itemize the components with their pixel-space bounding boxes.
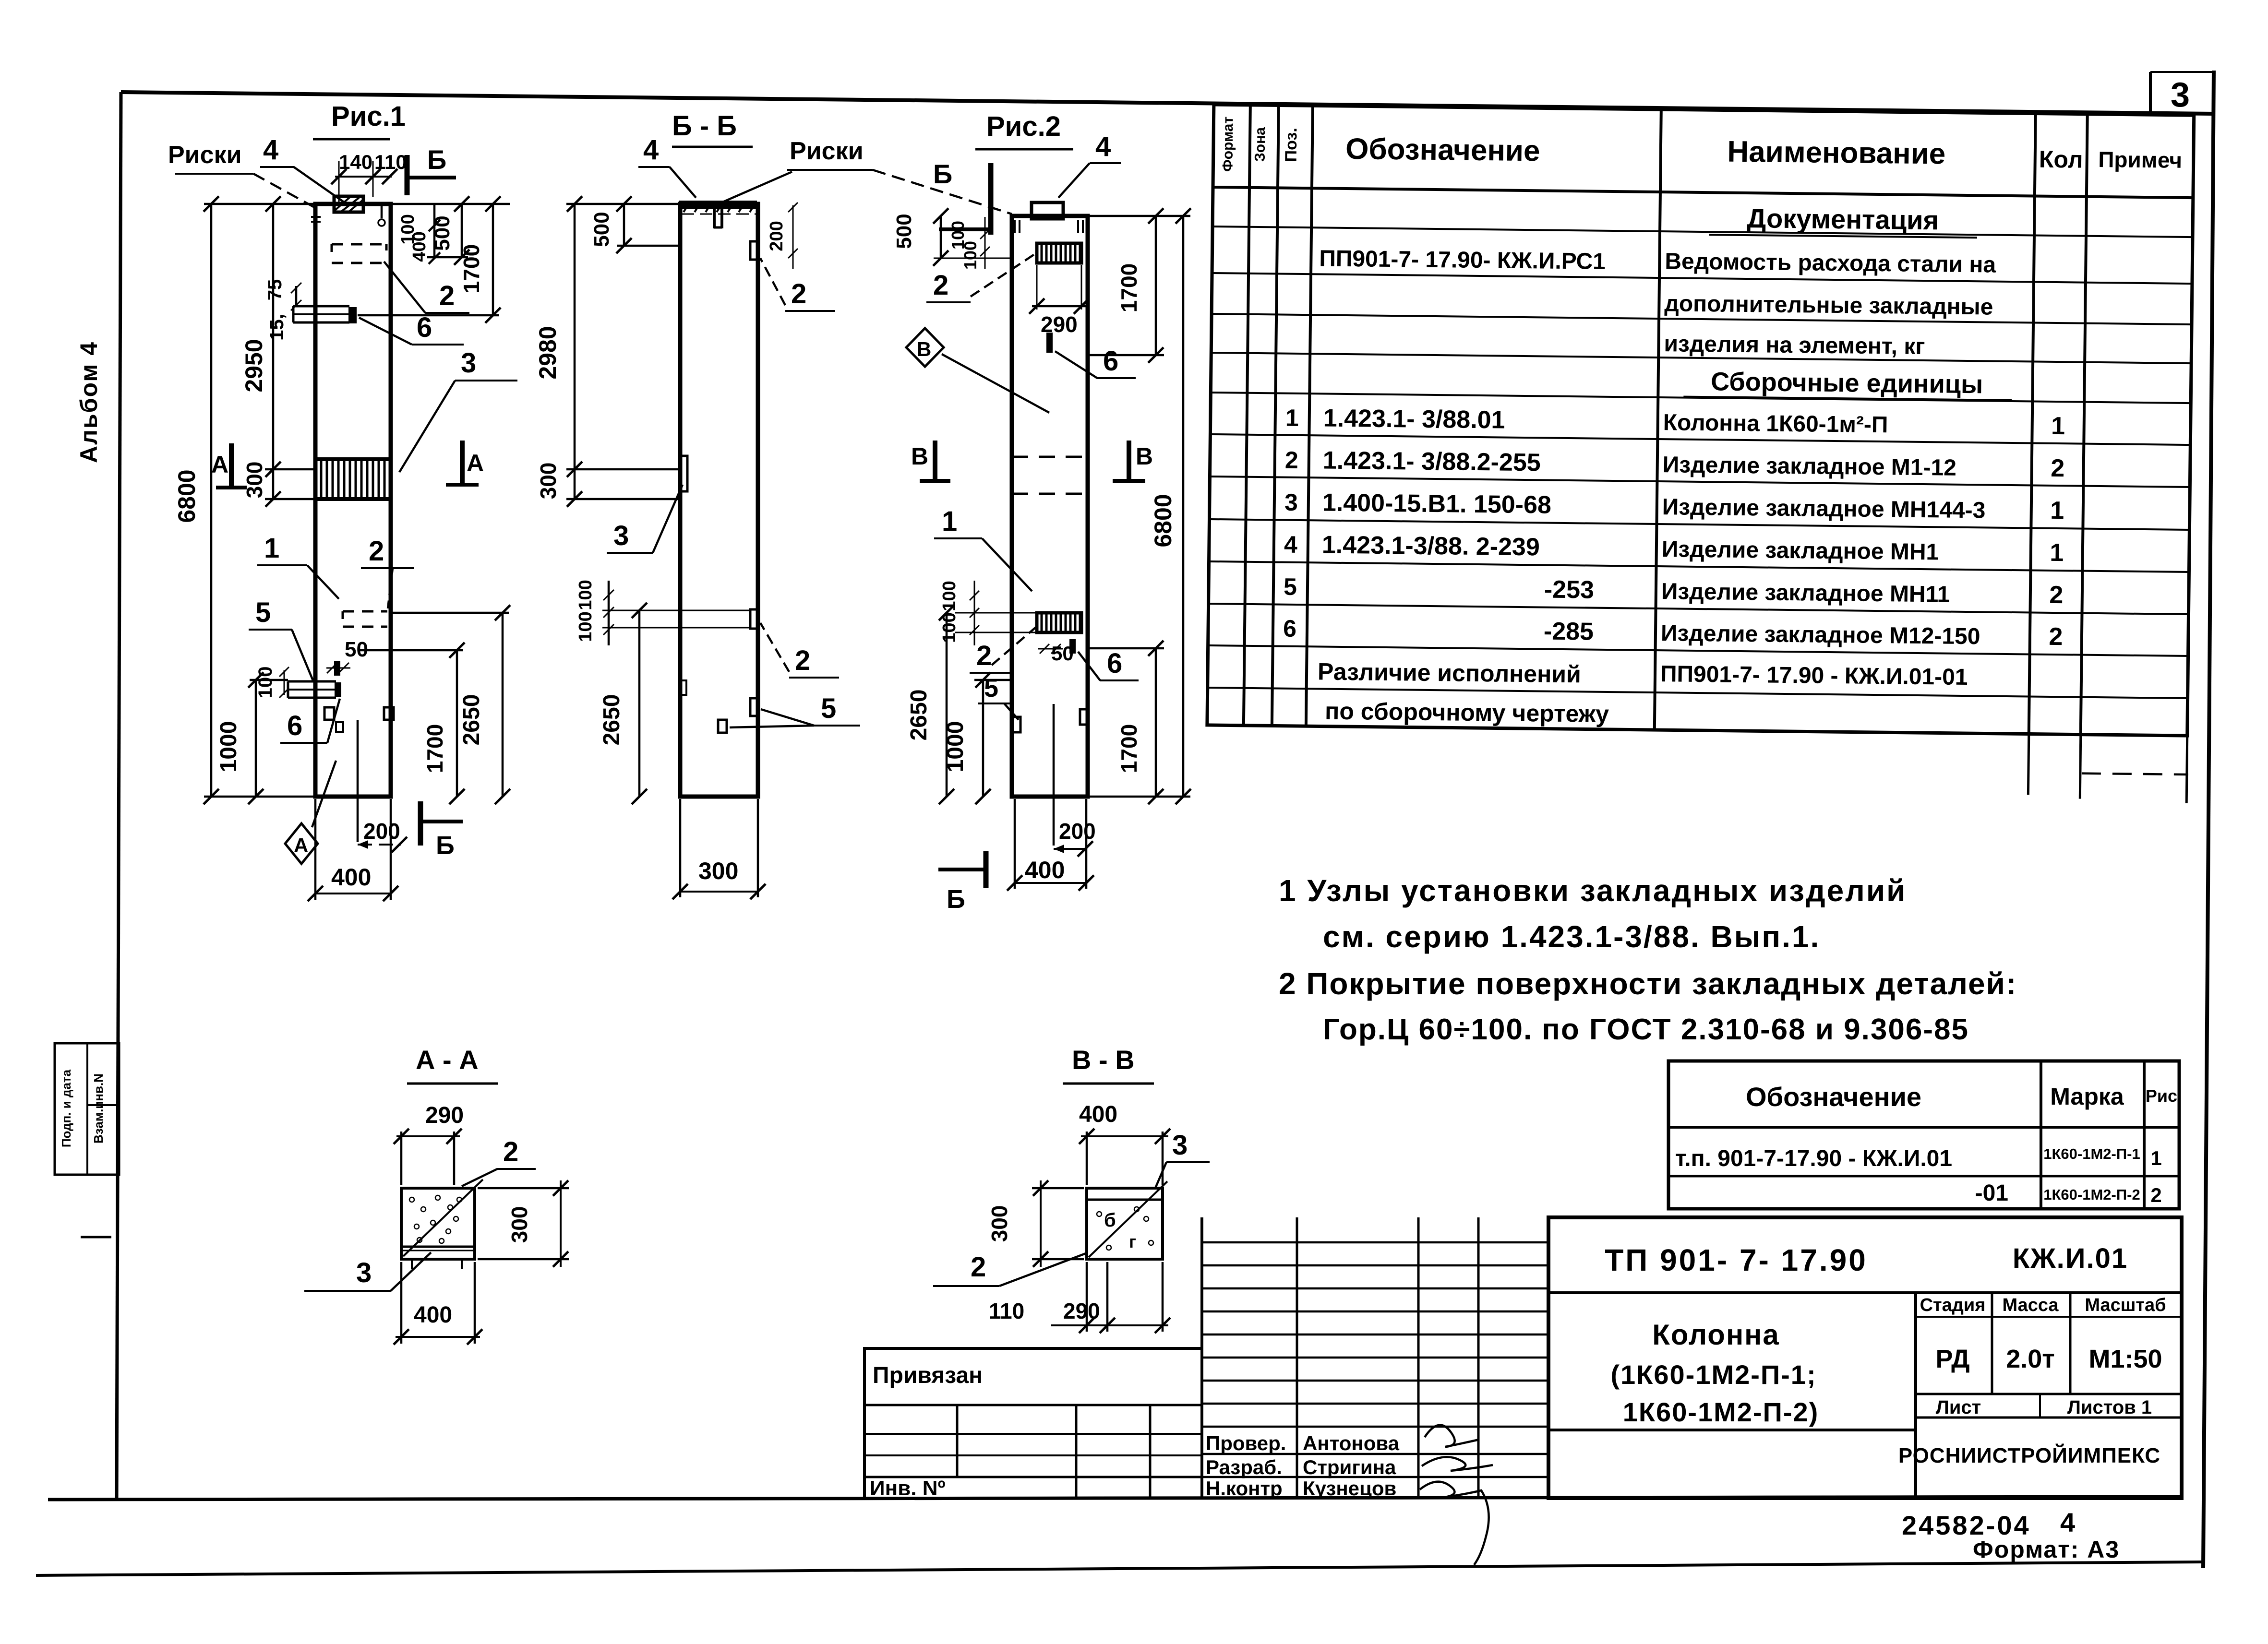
svg-text:Альбом 4: Альбом 4 <box>75 341 102 463</box>
svg-text:5: 5 <box>821 693 836 724</box>
svg-text:1000: 1000 <box>943 721 968 773</box>
dim 400 В-В <box>1086 1132 1088 1185</box>
svg-text:5: 5 <box>1284 573 1297 600</box>
svg-text:200: 200 <box>363 819 400 844</box>
centerline bottom col1 <box>357 720 359 842</box>
svg-text:110: 110 <box>374 151 407 173</box>
dim 1000 col1 <box>255 680 257 797</box>
spec table header bottom <box>1213 187 2193 198</box>
svg-text:Рис.2: Рис.2 <box>986 111 1061 142</box>
svg-text:6: 6 <box>287 710 302 741</box>
dim 6800 col3 <box>1182 216 1185 797</box>
svg-text:Подп. и дата: Подп. и дата <box>59 1069 73 1147</box>
dim 500 col3 top <box>940 216 942 258</box>
riski tick marks col1 <box>311 216 321 218</box>
dim 200 col2 top <box>792 205 794 269</box>
svg-text:Зона: Зона <box>1252 127 1269 162</box>
svg-text:В: В <box>1136 443 1153 470</box>
svg-text:А: А <box>294 834 308 857</box>
registration table row lines <box>1668 1126 2179 1129</box>
sheet outer bottom line <box>36 1562 2203 1575</box>
svg-text:(1К60-1М2-П-1;: (1К60-1М2-П-1; <box>1610 1359 1816 1390</box>
svg-text:300: 300 <box>536 463 561 500</box>
section mark Б bottom col3 <box>984 851 989 888</box>
extension lower right col1 <box>389 612 509 614</box>
signature squiggle 1 <box>1425 1425 1479 1447</box>
hidden plate item2 top (dashed) <box>332 243 386 246</box>
svg-text:Взам.инв.N: Взам.инв.N <box>91 1073 106 1144</box>
extension bottom col1 left <box>204 796 315 798</box>
dim 100 100 col3 lower <box>974 581 975 645</box>
svg-text:М1:50: М1:50 <box>2088 1345 2162 1373</box>
svg-text:Рис: Рис <box>2146 1086 2177 1106</box>
svg-text:400: 400 <box>1025 857 1065 883</box>
svg-text:2: 2 <box>795 645 810 676</box>
dim 2650 col3 <box>946 613 948 797</box>
dim 400 col3 <box>1015 882 1086 884</box>
fixture square mid col1 <box>336 722 343 732</box>
svg-text:3: 3 <box>2171 76 2190 114</box>
title name cell divider <box>1914 1293 1917 1498</box>
svg-text:В - В: В - В <box>1072 1045 1135 1075</box>
spec table column overruns <box>2028 734 2028 795</box>
svg-text:2: 2 <box>791 278 806 310</box>
svg-text:110: 110 <box>989 1299 1024 1323</box>
section А-А plate ticks <box>411 1259 413 1269</box>
left small plate col2 <box>680 680 686 695</box>
side plate right col3 <box>1080 709 1088 725</box>
extensions col3 <box>1088 215 1190 217</box>
dim 2980 col2 <box>574 204 576 469</box>
svg-text:Колонна 1К60-1м²-П: Колонна 1К60-1м²-П <box>1663 410 1888 438</box>
svg-text:Марка: Марка <box>2050 1083 2124 1110</box>
svg-text:Б: Б <box>947 885 965 914</box>
svg-text:1 Узлы установки закладных из: 1 Узлы установки закладных изделий <box>1279 873 1907 908</box>
svg-text:Привязан: Привязан <box>873 1363 983 1388</box>
svg-text:Обозначение: Обозначение <box>1345 132 1540 167</box>
section В-В top plate line <box>1087 1199 1163 1201</box>
dim 100/400 ticks <box>433 204 436 259</box>
extension top col1 left <box>204 203 315 205</box>
svg-text:4: 4 <box>1095 131 1111 162</box>
side plate item2 bottom col2 <box>750 609 758 629</box>
corner notches col3 <box>1014 220 1016 233</box>
svg-text:100: 100 <box>960 241 980 270</box>
title block row1 divider <box>1548 1291 2182 1294</box>
anchor bolt col3 top <box>1046 333 1053 353</box>
svg-text:см. серию 1.423.1-3/88. Вып.1: см. серию 1.423.1-3/88. Вып.1. <box>1323 919 1820 954</box>
svg-text:1: 1 <box>2051 412 2065 440</box>
svg-text:3: 3 <box>1172 1130 1188 1161</box>
hatched band item3 col1 <box>315 459 391 499</box>
svg-text:6800: 6800 <box>1150 494 1176 547</box>
hidden plate item2 bottom col1 (dashed) <box>343 610 387 613</box>
svg-text:1: 1 <box>2050 497 2064 524</box>
svg-text:дополнительные закладные: дополнительные закладные <box>1664 291 1993 320</box>
svg-text:изделия на элемент, кг: изделия на элемент, кг <box>1664 331 1925 359</box>
svg-text:4: 4 <box>2060 1507 2075 1537</box>
svg-text:200: 200 <box>767 221 787 251</box>
dim 200 col1 <box>358 844 401 846</box>
svg-text:Провер.: Провер. <box>1206 1432 1286 1454</box>
svg-text:Гор.Ц 60÷100. по ГОСТ 2.310-6: Гор.Ц 60÷100. по ГОСТ 2.310-68 и 9.306-8… <box>1323 1013 1969 1046</box>
svg-text:1К60-1М2-П-1: 1К60-1М2-П-1 <box>2043 1145 2140 1162</box>
svg-text:ПП901-7- 17.90- КЖ.И.РС1: ПП901-7- 17.90- КЖ.И.РС1 <box>1319 246 1606 274</box>
svg-text:6800: 6800 <box>173 469 200 523</box>
svg-text:100: 100 <box>939 581 960 611</box>
signature grid outline <box>1200 1217 1203 1498</box>
svg-text:2: 2 <box>2150 1184 2161 1206</box>
sheet frame right border <box>2203 71 2214 1568</box>
fixture square left col1 <box>324 707 334 720</box>
signature grid rows <box>1202 1241 1548 1244</box>
svg-text:т.п. 901-7-17.90 - КЖ.И.01: т.п. 901-7-17.90 - КЖ.И.01 <box>1675 1146 1952 1171</box>
svg-text:6: 6 <box>1103 345 1118 377</box>
dim 400 col1 <box>315 893 391 894</box>
dim 300 col2 <box>574 469 576 499</box>
svg-text:Поз.: Поз. <box>1282 128 1301 162</box>
svg-text:Ведомость расхода стали на: Ведомость расхода стали на <box>1665 249 1996 277</box>
svg-text:1.423.1- 3/88.2-255: 1.423.1- 3/88.2-255 <box>1323 447 1541 477</box>
sheet frame left border <box>117 92 121 1499</box>
svg-text:3: 3 <box>613 520 629 551</box>
svg-text:Масштаб: Масштаб <box>2085 1295 2166 1315</box>
svg-text:100: 100 <box>576 580 596 610</box>
spec table row lines <box>1212 226 2193 237</box>
svg-text:Изделие закладное М12-150: Изделие закладное М12-150 <box>1661 620 1980 649</box>
extension 2950/300 <box>265 468 315 471</box>
svg-text:1.400-15.В1. 150-68: 1.400-15.В1. 150-68 <box>1322 489 1552 519</box>
svg-text:400: 400 <box>1079 1102 1117 1127</box>
svg-text:1К60-1М2-П-2): 1К60-1М2-П-2) <box>1623 1397 1819 1427</box>
svg-text:А: А <box>211 451 228 478</box>
svg-text:3: 3 <box>1284 489 1298 516</box>
svg-text:В: В <box>911 443 928 470</box>
section mark Б bottom col1 <box>418 801 423 846</box>
svg-text:2: 2 <box>2049 623 2063 651</box>
side plate item3 col2 <box>680 456 687 491</box>
dim 140 110 line <box>335 176 392 178</box>
svg-text:Обозначение: Обозначение <box>1746 1082 1921 1112</box>
svg-text:2650: 2650 <box>459 694 484 746</box>
svg-text:6: 6 <box>1283 615 1296 642</box>
svg-text:400: 400 <box>414 1302 452 1328</box>
svg-text:Б: Б <box>436 831 455 860</box>
svg-text:1700: 1700 <box>459 244 484 293</box>
svg-text:Листов 1: Листов 1 <box>2067 1397 2152 1418</box>
anchor bolt col3 bottom <box>1069 639 1076 654</box>
diamond marker В col3 <box>906 328 944 367</box>
svg-text:500: 500 <box>892 214 916 249</box>
svg-text:по сборочному чертежу: по сборочному чертежу <box>1325 698 1609 727</box>
svg-text:г: г <box>1129 1232 1136 1251</box>
svg-text:2: 2 <box>503 1136 518 1167</box>
svg-text:Инв. Nº: Инв. Nº <box>870 1477 946 1500</box>
svg-text:500: 500 <box>431 215 454 250</box>
fixture square right col1 <box>384 707 394 720</box>
column 3 outline <box>1012 216 1088 797</box>
svg-text:РОСНИИСТРОЙИМПЕКС: РОСНИИСТРОЙИМПЕКС <box>1898 1443 2160 1467</box>
centerline bottom col3 <box>1053 704 1055 846</box>
svg-text:5: 5 <box>255 597 271 628</box>
title лист row bottom <box>1916 1417 2182 1419</box>
svg-text:Н.контр: Н.контр <box>1206 1477 1283 1500</box>
svg-text:Изделие закладное М1-12: Изделие закладное М1-12 <box>1663 452 1957 481</box>
svg-text:4: 4 <box>263 134 278 166</box>
svg-text:1000: 1000 <box>216 721 241 773</box>
svg-text:2.0т: 2.0т <box>2006 1345 2055 1373</box>
left attachment table verticals <box>956 1405 959 1477</box>
svg-text:2: 2 <box>2049 581 2064 609</box>
svg-text:Риски: Риски <box>168 141 242 169</box>
dim 300 bottom col2 <box>680 891 758 893</box>
anchor bolt col1 bottom <box>334 661 340 676</box>
svg-text:2: 2 <box>1285 447 1298 474</box>
svg-text:400: 400 <box>409 231 430 262</box>
dim 1000 col3 <box>982 680 984 797</box>
section mark Б top <box>405 155 410 195</box>
svg-text:6: 6 <box>1107 648 1122 679</box>
svg-text:140: 140 <box>339 151 372 173</box>
section А-А concrete dots <box>409 1197 414 1202</box>
section А-А diagonal <box>403 1179 483 1256</box>
signature grid verticals <box>1296 1217 1298 1498</box>
column 1 outline <box>315 204 391 797</box>
svg-text:-01: -01 <box>1975 1180 2008 1206</box>
dim 2650 col2 <box>638 610 641 797</box>
svg-text:4: 4 <box>1284 531 1298 558</box>
svg-text:2: 2 <box>933 270 948 301</box>
plate item5 lower left col1 <box>288 680 336 683</box>
svg-text:2950: 2950 <box>240 339 267 392</box>
svg-text:Разраб.: Разраб. <box>1206 1456 1282 1478</box>
title лист row divider <box>1916 1393 2182 1395</box>
svg-text:Стригина: Стригина <box>1303 1456 1396 1478</box>
inner square item5 col2 <box>718 720 727 733</box>
svg-text:Б - Б: Б - Б <box>672 110 737 142</box>
svg-text:500: 500 <box>590 212 613 247</box>
leader риски to col2 cap <box>724 172 792 202</box>
dim 200 col3 <box>1054 848 1085 850</box>
dim 400 А-А <box>400 1262 403 1344</box>
svg-text:Б: Б <box>933 159 952 189</box>
dim 100 100 col3 top <box>984 217 986 269</box>
svg-text:Стадия: Стадия <box>1920 1295 1986 1315</box>
svg-text:б: б <box>1104 1210 1116 1231</box>
svg-text:Изделие закладное МН1: Изделие закладное МН1 <box>1662 536 1939 565</box>
svg-text:6: 6 <box>417 312 432 343</box>
dim 15,75 ticks <box>295 286 298 307</box>
column 3 top plate item4 <box>1032 203 1063 219</box>
svg-text:4: 4 <box>643 134 659 166</box>
svg-text:1: 1 <box>264 533 279 564</box>
svg-text:-253: -253 <box>1544 576 1595 604</box>
svg-text:Изделие закладное МН144-3: Изделие закладное МН144-3 <box>1662 494 1986 523</box>
dim 1700 bottom col1 <box>456 650 458 797</box>
svg-text:1700: 1700 <box>1116 724 1141 773</box>
spec table outline <box>1207 105 2194 736</box>
svg-text:Колонна: Колонна <box>1652 1319 1780 1351</box>
svg-text:Антонова: Антонова <box>1303 1432 1400 1454</box>
svg-text:3: 3 <box>461 347 476 379</box>
diamond marker А col1 <box>285 823 318 864</box>
svg-text:2 Покрытие поверхности заклад: 2 Покрытие поверхности закладных деталей… <box>1279 966 2017 1001</box>
section В-В square <box>1087 1188 1163 1259</box>
registration table outline <box>1668 1061 2179 1209</box>
side plate item5 col2 <box>750 698 758 716</box>
dim 2650 col1 <box>502 613 504 797</box>
section В-В dots <box>1097 1212 1102 1216</box>
svg-text:300: 300 <box>987 1205 1012 1242</box>
dim 6800 line col1 <box>210 204 213 797</box>
plate item6 mid left col1 <box>293 305 349 308</box>
svg-text:2: 2 <box>2051 454 2065 482</box>
dim 1700 line col1 top <box>492 204 494 315</box>
svg-text:А: А <box>467 450 484 477</box>
dim 290 А-А <box>400 1132 403 1185</box>
svg-text:1700: 1700 <box>422 724 447 773</box>
svg-text:Сборочные единицы: Сборочные единицы <box>1711 367 1983 399</box>
hatched band item2 bottom col3 <box>1037 613 1081 632</box>
dim 500 line col1 <box>461 204 463 257</box>
column 1 top plate item4 <box>334 196 363 212</box>
svg-text:КЖ.И.01: КЖ.И.01 <box>2013 1243 2128 1274</box>
spec table column lines <box>1244 105 1250 726</box>
title name cell bottom <box>1548 1429 1916 1431</box>
dim 2950 line <box>272 204 275 469</box>
column 2 outline <box>680 204 758 797</box>
hidden lines col3 <box>1012 456 1088 458</box>
svg-text:290: 290 <box>425 1103 464 1128</box>
svg-text:1: 1 <box>1285 405 1299 431</box>
svg-text:100: 100 <box>576 611 596 642</box>
svg-text:Кол: Кол <box>2039 146 2083 173</box>
left margin stamp box <box>55 1043 119 1175</box>
svg-text:1К60-1М2-П-2: 1К60-1М2-П-2 <box>2043 1186 2140 1203</box>
svg-text:Кузнецов: Кузнецов <box>1303 1477 1396 1500</box>
svg-text:Лист: Лист <box>1936 1397 1981 1418</box>
svg-text:Изделие закладное МН11: Изделие закладное МН11 <box>1661 579 1950 608</box>
svg-text:Наименование: Наименование <box>1727 135 1946 171</box>
left attachment table outline <box>864 1348 1202 1498</box>
dim 500 col2 <box>623 204 625 246</box>
svg-text:Б: Б <box>427 144 446 175</box>
svg-text:300: 300 <box>698 858 738 884</box>
section mark Б top col3 <box>988 163 994 235</box>
svg-text:1.423.1-3/88. 2-239: 1.423.1-3/88. 2-239 <box>1322 531 1540 561</box>
svg-text:2980: 2980 <box>534 326 561 379</box>
svg-text:2: 2 <box>369 536 384 567</box>
svg-text:2650: 2650 <box>906 690 932 741</box>
side plate left col3 <box>1013 717 1020 732</box>
signature squiggle 2 <box>1422 1457 1493 1471</box>
leader риски to col3 <box>873 170 1012 214</box>
left margin tick <box>81 1236 111 1239</box>
column 2 top cap hatched <box>679 201 757 209</box>
left attachment table row lines <box>864 1404 1202 1406</box>
svg-text:75: 75 <box>264 279 286 301</box>
svg-text:Масса: Масса <box>2002 1295 2059 1315</box>
title block outline <box>1548 1217 2182 1498</box>
dim 1700 col3 top <box>1155 216 1157 355</box>
sheet frame bottom border (title line) <box>48 1497 2182 1500</box>
svg-text:400: 400 <box>331 864 371 891</box>
svg-text:200: 200 <box>1059 819 1096 844</box>
title header underline <box>1916 1316 2182 1318</box>
dim 290 col3 <box>1036 265 1038 310</box>
svg-text:ТП 901- 7- 17.90: ТП 901- 7- 17.90 <box>1605 1243 1868 1277</box>
svg-text:РД: РД <box>1935 1345 1969 1373</box>
dim 110 290 В-В <box>1086 1262 1088 1332</box>
dim 100 100 col2 <box>608 581 610 645</box>
svg-text:Примеч: Примеч <box>2098 147 2182 173</box>
title column dividers <box>1991 1293 1993 1394</box>
svg-text:15,: 15, <box>266 314 288 341</box>
svg-text:2: 2 <box>976 640 992 671</box>
svg-text:290: 290 <box>1063 1299 1100 1323</box>
svg-text:2: 2 <box>439 280 455 311</box>
section В-В diagonal <box>1089 1181 1167 1257</box>
column 2 cap axis dashes <box>682 214 756 215</box>
svg-text:2: 2 <box>971 1251 986 1283</box>
dim chain right top col1: extension <box>391 203 510 205</box>
registration table columns <box>2040 1061 2042 1209</box>
svg-text:300: 300 <box>507 1206 532 1243</box>
svg-text:-285: -285 <box>1544 618 1594 646</box>
svg-text:ПП901-7- 17.90 - КЖ.И.01-01: ПП901-7- 17.90 - КЖ.И.01-01 <box>1660 661 1968 690</box>
svg-text:Различие исполнений: Различие исполнений <box>1318 658 1581 688</box>
svg-text:А - А: А - А <box>416 1045 479 1075</box>
svg-text:Документация: Документация <box>1747 203 1939 235</box>
svg-text:3: 3 <box>356 1257 372 1288</box>
svg-text:300: 300 <box>242 462 267 499</box>
sheet frame top border <box>121 92 2214 114</box>
svg-text:100: 100 <box>255 667 276 699</box>
section А-А bottom plate line <box>401 1246 475 1248</box>
dim 300 А-А <box>478 1187 569 1190</box>
svg-text:Формат: А3: Формат: А3 <box>1973 1536 2120 1563</box>
svg-text:50: 50 <box>345 638 368 661</box>
hatched band item2 top col3 <box>1037 243 1081 263</box>
leader риски to column1 <box>253 174 314 207</box>
dim 1700 col3 bottom <box>1155 648 1157 797</box>
svg-text:1: 1 <box>2150 1147 2161 1169</box>
svg-text:Риски: Риски <box>790 137 864 165</box>
svg-text:2650: 2650 <box>599 694 624 746</box>
svg-text:В: В <box>917 338 931 360</box>
section А-А square <box>401 1188 475 1259</box>
svg-text:Формат: Формат <box>1220 117 1236 172</box>
dim 300 В-В <box>1032 1187 1084 1190</box>
dim 300 ticks col1 <box>265 491 281 507</box>
svg-text:1700: 1700 <box>1116 263 1141 312</box>
svg-text:1: 1 <box>2050 539 2064 567</box>
svg-text:1.423.1- 3/88.01: 1.423.1- 3/88.01 <box>1323 405 1505 434</box>
page number box <box>2149 72 2152 113</box>
side plate item2 top col2 <box>750 241 758 260</box>
column 2 cap bolt <box>713 208 716 228</box>
svg-text:Рис.1: Рис.1 <box>331 101 406 132</box>
signature squiggle 3 <box>1420 1482 1489 1565</box>
svg-text:1: 1 <box>942 506 957 537</box>
svg-text:290: 290 <box>1041 312 1078 337</box>
extensions col2 left <box>566 203 680 205</box>
